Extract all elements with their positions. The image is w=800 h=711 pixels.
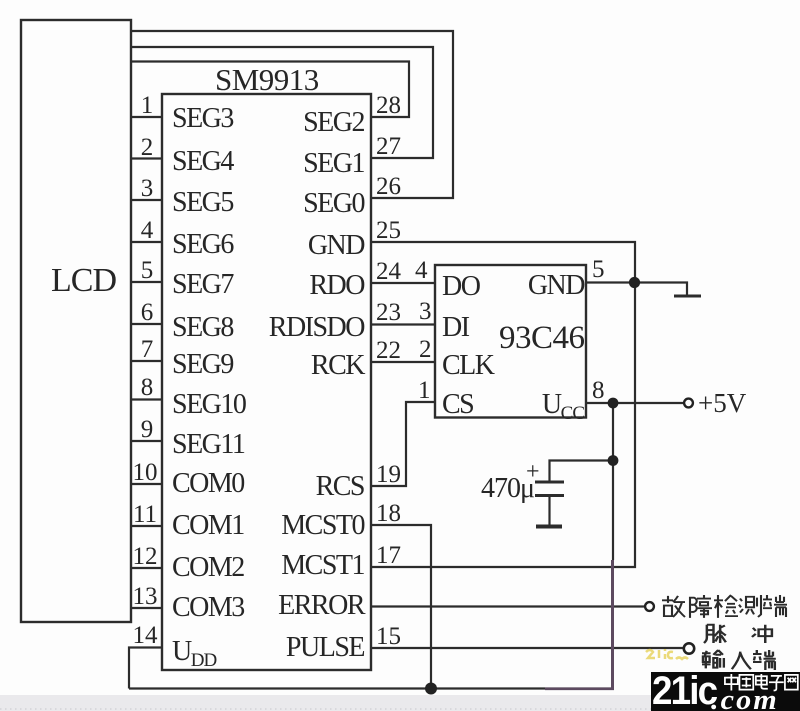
svg-text:28: 28 [376, 92, 401, 119]
wire pin12 COM2 [131, 567, 162, 569]
svg-text:27: 27 [376, 133, 401, 160]
label 输入端 (input terminal) [702, 650, 776, 670]
svg-text:25: 25 [376, 217, 401, 244]
svg-text:SEG0: SEG0 [303, 188, 364, 219]
wire pin23 RDISDO to DI [372, 323, 435, 325]
svg-text:24: 24 [376, 258, 402, 285]
svg-text:17: 17 [376, 542, 401, 569]
svg-text:DI: DI [442, 312, 470, 343]
bottom rail wire [129, 687, 613, 689]
wire pin11 COM1 [131, 525, 162, 527]
char 端 [763, 595, 787, 617]
wire +5V net down to capacitor junction [612, 403, 614, 560]
wire pin6 SEG8 [131, 323, 162, 325]
wire 93C46 UCC pin8 to +5V terminal [586, 402, 684, 404]
wire LCD to pin26 (SEG0) [131, 31, 453, 198]
wire pin3 SEG5 [131, 199, 162, 201]
svg-text:SEG8: SEG8 [172, 312, 233, 343]
svg-text:1: 1 [141, 92, 154, 119]
svg-text:SEG2: SEG2 [303, 107, 364, 138]
logo 21ic.com badge [651, 669, 800, 711]
svg-text:SEG11: SEG11 [172, 429, 245, 460]
svg-text:SEG7: SEG7 [172, 269, 234, 300]
wire pin10 COM0 [131, 483, 162, 485]
junction dot +5V node [608, 398, 619, 409]
SM9913 right pin names [269, 107, 366, 663]
svg-text:SEG9: SEG9 [172, 349, 233, 380]
svg-text:18: 18 [376, 500, 401, 527]
svg-text:3: 3 [419, 298, 432, 325]
right pin numbers [376, 92, 605, 650]
svg-text:23: 23 [376, 299, 401, 326]
svg-text:8: 8 [141, 374, 154, 401]
svg-text:COM2: COM2 [172, 552, 244, 583]
svg-text:CLK: CLK [442, 350, 495, 381]
svg-text:SM9913: SM9913 [215, 62, 319, 97]
wire pin18 MCST0 down to bottom rail [372, 525, 431, 689]
svg-text:5: 5 [592, 256, 605, 283]
svg-text:RDISDO: RDISDO [269, 312, 366, 343]
wire pin24 RDO to DO [372, 282, 435, 284]
label 故障检测端 (fault detect terminal) [662, 595, 787, 618]
char 中 [725, 674, 738, 691]
ground bar below capacitor [536, 525, 562, 529]
svg-text:SEG5: SEG5 [172, 187, 233, 218]
char 检 [714, 595, 738, 618]
capacitor C1 470u plates [535, 481, 564, 484]
label 脉冲 (pulse) [704, 625, 772, 643]
wire pin13 COM3 [131, 607, 162, 609]
svg-text:21ic: 21ic [652, 669, 718, 711]
svg-text:SEG6: SEG6 [172, 229, 234, 260]
svg-text:DO: DO [442, 271, 481, 302]
svg-text:12: 12 [133, 543, 158, 570]
wire pin8 SEG10 [131, 398, 162, 400]
wire pin14 UDD to bottom rail [129, 648, 162, 689]
char 电 [756, 674, 768, 689]
svg-text:26: 26 [376, 173, 401, 200]
char 测 [739, 595, 761, 617]
char 端 [753, 650, 776, 670]
char 子 [769, 676, 784, 691]
wire pin25 GND net down right side to MCST1 [372, 242, 635, 567]
svg-text:5: 5 [141, 257, 154, 284]
LCD block [21, 20, 131, 622]
svg-text:10: 10 [133, 459, 158, 486]
svg-text:2: 2 [141, 134, 154, 161]
wire pin2 SEG4 [131, 157, 162, 159]
bottom gray strip [0, 695, 800, 711]
svg-text:15: 15 [376, 623, 401, 650]
svg-text:7: 7 [141, 336, 154, 363]
char 网 [785, 675, 798, 690]
wire pin9 SEG11 [131, 440, 162, 442]
char 故 [662, 596, 685, 617]
svg-text:13: 13 [133, 583, 158, 610]
IC U2 93C46 body [435, 265, 586, 418]
svg-text:ERROR: ERROR [278, 590, 366, 621]
logo text 中国电子网 [725, 674, 798, 691]
svg-text:LCD: LCD [51, 262, 116, 299]
terminal circle +5V [684, 399, 693, 408]
wire pin22 RCK to CLK [372, 361, 435, 363]
svg-text:CS: CS [442, 389, 473, 420]
wire 93C46 GND pin5 to junction [586, 281, 635, 283]
wire pin7 SEG9 [131, 360, 162, 362]
wire purple segment down to bottom rail [611, 560, 614, 690]
wire LCD to pin27 (SEG1) [131, 47, 433, 158]
svg-text:8: 8 [592, 377, 605, 404]
svg-text:+5V: +5V [698, 388, 747, 418]
wire pin19 RCS to CS [372, 402, 435, 486]
svg-text:COM0: COM0 [172, 468, 244, 499]
svg-text:93C46: 93C46 [499, 320, 585, 356]
IC U1 SM9913 body [162, 94, 371, 670]
char 输 [702, 650, 724, 668]
svg-text:9: 9 [141, 416, 154, 443]
SM9913 left pin names [172, 103, 246, 671]
wire pin1 SEG3 [131, 116, 162, 118]
svg-text:4: 4 [141, 217, 154, 244]
svg-text:1: 1 [418, 377, 431, 404]
svg-text:22: 22 [376, 337, 401, 364]
svg-text:14: 14 [133, 622, 159, 649]
wire ERROR to terminal [372, 605, 645, 607]
svg-text:GND: GND [528, 270, 585, 301]
wire pin15 PULSE to terminal [372, 647, 684, 649]
wire pin4 SEG6 [131, 241, 162, 243]
junction dot GND node [629, 277, 640, 288]
junction dot capacitor node [608, 455, 619, 466]
ground symbol [635, 283, 687, 296]
wire capacitor to ground [548, 497, 550, 525]
wire pin5 SEG7 [131, 281, 162, 283]
svg-text:PULSE: PULSE [286, 632, 364, 663]
svg-text:COM3: COM3 [172, 592, 244, 623]
svg-text:GND: GND [308, 230, 365, 261]
char 障 [690, 595, 712, 618]
char 脉 [704, 625, 726, 643]
svg-text:SEG3: SEG3 [172, 103, 233, 134]
svg-text:SEG10: SEG10 [172, 389, 246, 420]
svg-text:MCST0: MCST0 [281, 510, 364, 541]
wire capacitor branch [550, 461, 614, 482]
svg-text:RDO: RDO [309, 270, 365, 301]
terminal circle ERROR [645, 602, 654, 611]
svg-text:MCST1: MCST1 [281, 550, 364, 581]
terminal circle PULSE [684, 643, 694, 653]
svg-text:4: 4 [415, 257, 428, 284]
wire LCD to pin28 (SEG2) [131, 62, 409, 118]
svg-text:COM1: COM1 [172, 510, 244, 541]
char 国 [739, 675, 753, 690]
svg-text:SEG4: SEG4 [172, 146, 234, 177]
svg-text:+: + [526, 459, 540, 485]
char 入 [732, 652, 751, 670]
junction dot bottom rail node [425, 683, 437, 695]
left pin numbers [133, 92, 159, 649]
watermark ghost yellow [646, 649, 688, 659]
svg-text:SEG1: SEG1 [303, 148, 364, 179]
svg-text:2: 2 [419, 336, 432, 363]
93C46 pin names [442, 270, 585, 424]
svg-text:11: 11 [133, 501, 157, 528]
svg-text:6: 6 [141, 299, 154, 326]
svg-text:19: 19 [376, 461, 401, 488]
svg-text:RCS: RCS [316, 471, 364, 502]
char 冲 [752, 625, 772, 643]
svg-text:3: 3 [141, 175, 154, 202]
svg-text:.com: .com [711, 684, 779, 711]
svg-text:RCK: RCK [311, 350, 365, 381]
